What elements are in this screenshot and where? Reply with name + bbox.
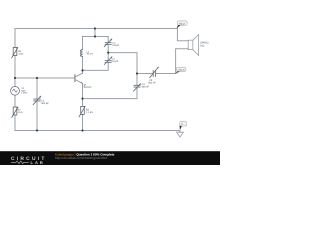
capacitor C2 arrow <box>104 39 112 47</box>
svg-text:1.1 kΩ: 1.1 kΩ <box>86 111 93 114</box>
node C1 bottom junction <box>36 129 38 131</box>
net flag top right <box>177 21 187 25</box>
capacitor C4 plates <box>134 85 140 87</box>
svg-text:1 kHz: 1 kHz <box>21 92 28 95</box>
arrowheads <box>17 39 159 109</box>
capacitor C5 arrow <box>150 67 159 77</box>
svg-text:0.8 pF: 0.8 pF <box>113 44 120 47</box>
R3 arrowhead <box>84 106 86 108</box>
node A junction <box>107 52 109 54</box>
speaker SPKR1 cone <box>193 35 199 56</box>
wire right corner down to speaker top <box>177 29 188 41</box>
wire C2 to C3 <box>107 45 109 61</box>
capacitor C1 plates <box>34 99 40 101</box>
wire C5 right lead <box>156 73 176 75</box>
C3 arrowhead <box>111 57 113 59</box>
wire stub from top rail <box>94 29 96 37</box>
resistor R3 rheostat body <box>81 106 85 114</box>
C5 arrowhead <box>157 67 159 69</box>
wire box top rail <box>82 36 108 38</box>
capacitor C1 arrow <box>33 96 41 105</box>
wire C5 left lead <box>137 73 153 75</box>
wire L1 lead bottom <box>82 57 84 71</box>
voltage source V1 sine <box>13 89 18 92</box>
voltage source V1 circle <box>11 86 20 95</box>
wire ground stub <box>179 131 181 133</box>
node R3 bottom junction <box>81 129 83 131</box>
wire L1 lead top <box>82 37 84 50</box>
node C4 C5 junction <box>136 72 138 74</box>
R2 arrowhead <box>17 107 19 109</box>
transistor Q1 base bar <box>74 75 76 82</box>
capacitor C4 arrow <box>133 84 140 91</box>
node stub top junction <box>94 27 96 29</box>
wire box bottom rail <box>83 62 109 70</box>
capacitor C5 plates <box>153 71 155 77</box>
C1 arrowhead <box>39 96 41 98</box>
wire C4 to emitter node <box>83 87 138 99</box>
net flags <box>175 21 187 130</box>
svg-text:0.8 pF: 0.8 pF <box>112 60 119 63</box>
C4 arrowhead <box>139 84 141 86</box>
wire top rail <box>15 28 177 30</box>
svg-text:2N2222: 2N2222 <box>83 86 92 89</box>
svg-text:8 Ω: 8 Ω <box>200 44 204 47</box>
svg-text:500 pF: 500 pF <box>41 102 49 105</box>
wire R3 to bottom rail <box>82 114 84 130</box>
svg-text:LAB: LAB <box>31 160 45 165</box>
Q1 emitter arrowhead <box>81 82 83 84</box>
wire speaker bottom return <box>176 49 189 74</box>
svg-text:out_n: out_n <box>178 69 185 72</box>
svg-text:http://circuitlab.com/c6sb87jp: http://circuitlab.com/c6sb87jps3m8e2 <box>55 156 107 160</box>
wire C1 branch lower <box>36 101 38 131</box>
transistor Q1 emitter diagonal <box>75 80 82 84</box>
net flag speaker bottom <box>177 67 186 71</box>
resistor R2 arrow <box>12 107 18 117</box>
node mid-left junction <box>14 77 16 79</box>
wire mid horizontal to base <box>15 77 75 79</box>
component labels <box>18 42 210 115</box>
wire R2 to bottom rail <box>14 115 16 131</box>
wire V1 to R2 <box>14 95 16 107</box>
capacitor C3 plates <box>105 61 111 63</box>
wire emitter vertical <box>82 83 84 98</box>
node collector junction <box>81 69 83 71</box>
svg-text:out_p: out_p <box>179 22 186 25</box>
transistor Q1 collector diagonal <box>75 73 82 77</box>
capacitor C3 arrow <box>104 57 112 65</box>
inductor L1 coil <box>80 50 82 57</box>
wire C1 branch upper <box>36 78 38 99</box>
svg-text:500 nF: 500 nF <box>148 82 156 85</box>
node stub bottom junction <box>94 35 96 37</box>
R1 arrowhead <box>17 47 19 49</box>
CircuitLab logo <box>11 156 47 165</box>
wire emitter to R3 <box>82 99 84 107</box>
node C1 top junction <box>36 77 38 79</box>
wire C2 lead top <box>107 37 109 43</box>
wire node A to C4 C5 junction <box>108 53 137 74</box>
capacitor C2 plates <box>105 43 111 45</box>
resistor R3 arrow <box>79 107 85 117</box>
svg-text:4 kΩ: 4 kΩ <box>18 53 23 56</box>
footer bar <box>0 151 220 165</box>
wire bottom rail <box>15 130 180 132</box>
wire C4 upper lead <box>136 74 138 86</box>
ground triangle <box>177 132 184 137</box>
resistor R1 rheostat body <box>13 48 17 56</box>
wire collector vertical <box>82 70 84 73</box>
node emitter junction <box>81 98 83 100</box>
net flag ground <box>180 121 187 126</box>
junction dots <box>14 27 138 131</box>
C2 arrowhead <box>111 39 113 41</box>
resistor R2 rheostat body <box>13 107 17 115</box>
svg-text:4 kΩ: 4 kΩ <box>18 111 23 114</box>
wire R1 to mid junction <box>14 56 16 87</box>
speaker SPKR1 body <box>188 40 193 49</box>
resistor R1 arrow <box>12 48 18 58</box>
wire left rail upper segment <box>14 29 16 48</box>
svg-text:70 nH: 70 nH <box>87 53 94 56</box>
svg-text:500 nF: 500 nF <box>142 86 150 89</box>
